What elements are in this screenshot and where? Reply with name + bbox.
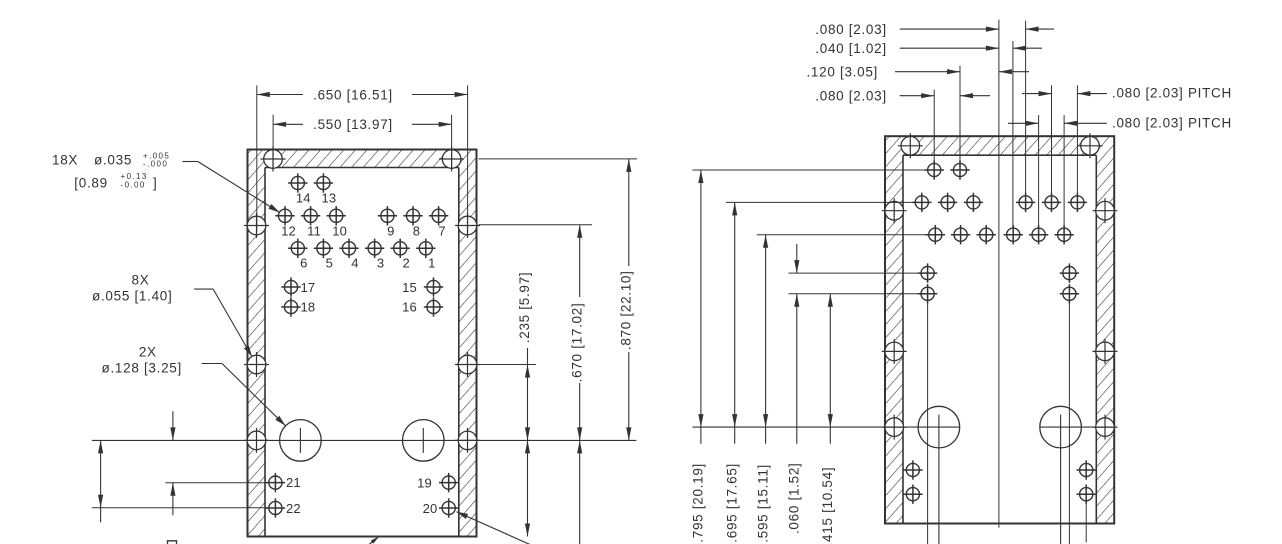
svg-text:.695 [17.65]: .695 [17.65] <box>725 463 740 543</box>
svg-text:.795 [20.19]: .795 [20.19] <box>691 463 706 543</box>
svg-text:17: 17 <box>301 280 316 295</box>
svg-text:4: 4 <box>351 256 358 271</box>
svg-text:11: 11 <box>307 224 321 239</box>
svg-text:ø.128 [3.25]: ø.128 [3.25] <box>102 360 182 375</box>
svg-text:.080 [2.03]: .080 [2.03] <box>815 22 887 37</box>
svg-text:9: 9 <box>387 224 394 239</box>
svg-text:]: ] <box>153 176 157 191</box>
svg-text:1: 1 <box>428 256 435 271</box>
svg-text:14: 14 <box>296 191 311 206</box>
svg-text:.080 [2.03]: .080 [2.03] <box>815 89 887 104</box>
svg-text:-.000: -.000 <box>143 160 168 169</box>
svg-text:16: 16 <box>402 299 417 314</box>
svg-text:5: 5 <box>326 256 333 271</box>
svg-text:.040 [1.02]: .040 [1.02] <box>815 41 887 56</box>
svg-text:.060 [1.52]: .060 [1.52] <box>787 463 802 535</box>
svg-text:2X: 2X <box>139 344 157 359</box>
svg-text:12: 12 <box>281 224 296 239</box>
svg-text:.670 [17.02]: .670 [17.02] <box>570 303 585 383</box>
svg-text:.120 [3.05]: .120 [3.05] <box>806 65 878 80</box>
svg-text:[0.89: [0.89 <box>74 176 108 191</box>
svg-text:18X: 18X <box>52 153 78 168</box>
svg-text:8: 8 <box>413 224 420 239</box>
svg-text:.870 [22.10]: .870 [22.10] <box>619 270 634 350</box>
svg-text:2: 2 <box>402 256 409 271</box>
svg-text:8X: 8X <box>132 272 150 287</box>
svg-text:-0.00: -0.00 <box>121 180 146 189</box>
svg-text:.080 [2.03] PITCH: .080 [2.03] PITCH <box>1112 85 1232 100</box>
svg-text:10: 10 <box>332 224 347 239</box>
svg-text:ø.035: ø.035 <box>94 153 132 168</box>
svg-text:.595 [15.11]: .595 [15.11] <box>755 464 770 543</box>
svg-text:20: 20 <box>423 501 438 516</box>
svg-text:.415 [10.54]: .415 [10.54] <box>820 467 835 544</box>
svg-text:.550 [13.97]: .550 [13.97] <box>313 117 393 132</box>
svg-text:18: 18 <box>301 299 316 314</box>
svg-text:21: 21 <box>286 475 301 490</box>
svg-text:13: 13 <box>321 191 336 206</box>
svg-text:15: 15 <box>402 280 417 295</box>
svg-text:.080 [2.03] PITCH: .080 [2.03] PITCH <box>1112 115 1232 130</box>
svg-text:22: 22 <box>286 501 301 516</box>
svg-text:ø.055 [1.40]: ø.055 [1.40] <box>92 288 172 303</box>
svg-text:.650 [16.51]: .650 [16.51] <box>313 87 393 102</box>
svg-text:.235 [5.97]: .235 [5.97] <box>517 272 532 344</box>
svg-text:6: 6 <box>300 256 307 271</box>
svg-text:7: 7 <box>438 224 445 239</box>
svg-text:19: 19 <box>417 476 432 491</box>
svg-text:3: 3 <box>377 256 384 271</box>
